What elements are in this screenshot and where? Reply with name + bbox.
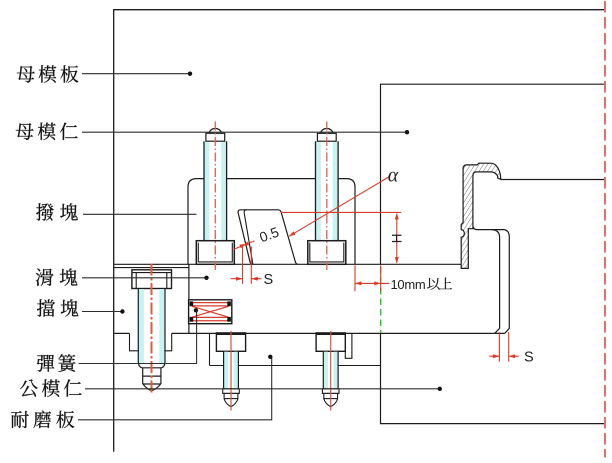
spring 彈簧 symbol	[189, 300, 232, 324]
slider / stop block bottom line	[114, 332, 505, 334]
stop block screw shaft	[138, 289, 165, 385]
bottom screw head	[316, 333, 345, 351]
bottom screw tip cone	[224, 399, 238, 407]
slider left edge	[188, 264, 190, 333]
svg-text:S: S	[264, 272, 274, 288]
bottom screw tip collar	[322, 389, 339, 394]
leader 公模仁	[85, 388, 440, 390]
label 滑塊	[36, 269, 54, 286]
wear plate bottom line	[210, 365, 381, 367]
latch bolt centerline	[326, 122, 328, 271]
latch bolt shaft cyan highlight	[316, 142, 321, 241]
label 撥塊	[36, 203, 54, 220]
wear plate left edge	[209, 333, 211, 365]
svg-text:10mm: 10mm	[391, 277, 426, 292]
leader 撥塊	[83, 213, 197, 215]
cavity insert pocket bottom line	[501, 179, 604, 181]
bottom screw shaft cyan	[324, 352, 328, 389]
stop block screw tip cone	[143, 384, 161, 391]
leader 擋塊	[82, 311, 122, 313]
bottom screw shaft	[323, 351, 338, 389]
bottom screw centerline	[330, 331, 332, 411]
leader 滑塊	[82, 277, 206, 279]
stop block screw head	[132, 270, 172, 289]
bottom screw shaft cyan	[224, 352, 228, 389]
stop block screw shaft cyan	[139, 289, 144, 365]
leader 彈簧	[79, 312, 197, 364]
molding surface line	[473, 227, 504, 230]
cavity plate 母模板 outline	[114, 10, 604, 452]
bottom screw centerline	[230, 331, 232, 411]
latch bolt shaft	[204, 141, 227, 241]
svg-text:α: α	[388, 165, 399, 187]
slot clearance line (0.5 gap)	[244, 210, 253, 264]
latch block 撥塊 outline	[188, 179, 355, 265]
dimension 10mm+	[355, 265, 390, 291]
dimension S (slider-core clearance)	[489, 332, 519, 362]
red dashed mold centerline (right border)	[604, 1, 606, 458]
bottom screw shaft	[224, 351, 239, 389]
dimension alpha leader	[289, 177, 390, 237]
latch bolt head	[308, 241, 346, 265]
latch bolt collar	[206, 133, 225, 141]
latch bolt shaft	[316, 141, 339, 241]
slider back face with chamfer	[492, 230, 499, 334]
label 耐磨板	[11, 411, 29, 428]
dimension S (slot bottom gap)	[231, 247, 262, 284]
dimension 0.5 (slot clearance)	[233, 241, 254, 250]
parting line / slider top surface	[114, 263, 462, 265]
label 彈簧	[37, 355, 55, 372]
latch bolt collar	[317, 133, 336, 141]
svg-text:H: H	[390, 234, 405, 244]
latch bolt centerline	[214, 122, 216, 271]
label 母模仁	[16, 123, 34, 140]
bottom screw head	[216, 333, 245, 351]
label 擋塊	[37, 299, 55, 316]
leader 耐磨板	[78, 357, 272, 420]
stop block screw centerline	[151, 264, 153, 395]
molded product part (hatched cross-section)	[461, 163, 501, 268]
cavity insert 母模仁 outline	[381, 84, 605, 264]
label 母模板	[17, 66, 35, 83]
latch bolt shaft cyan highlight	[205, 142, 210, 241]
core insert front face with chamfer	[504, 230, 509, 334]
latch bolt head	[196, 241, 234, 265]
bottom screw tip cone	[324, 399, 338, 407]
svg-text:S: S	[524, 350, 534, 366]
right screw head pocket step	[345, 333, 352, 358]
stop screw pocket	[130, 333, 172, 350]
latch bolt dome top	[209, 128, 222, 133]
green dashed insert edge projection	[380, 267, 382, 333]
leader 母模仁	[82, 131, 407, 133]
core plate right outline	[381, 333, 605, 423]
stop block top edge	[114, 267, 189, 269]
latch block angled slot	[238, 210, 298, 264]
dimension H	[281, 212, 402, 262]
latch bolt dome top	[321, 128, 334, 133]
leader 母模板	[82, 73, 190, 75]
bottom screw tip collar	[223, 389, 240, 394]
label 公模仁	[20, 379, 38, 396]
